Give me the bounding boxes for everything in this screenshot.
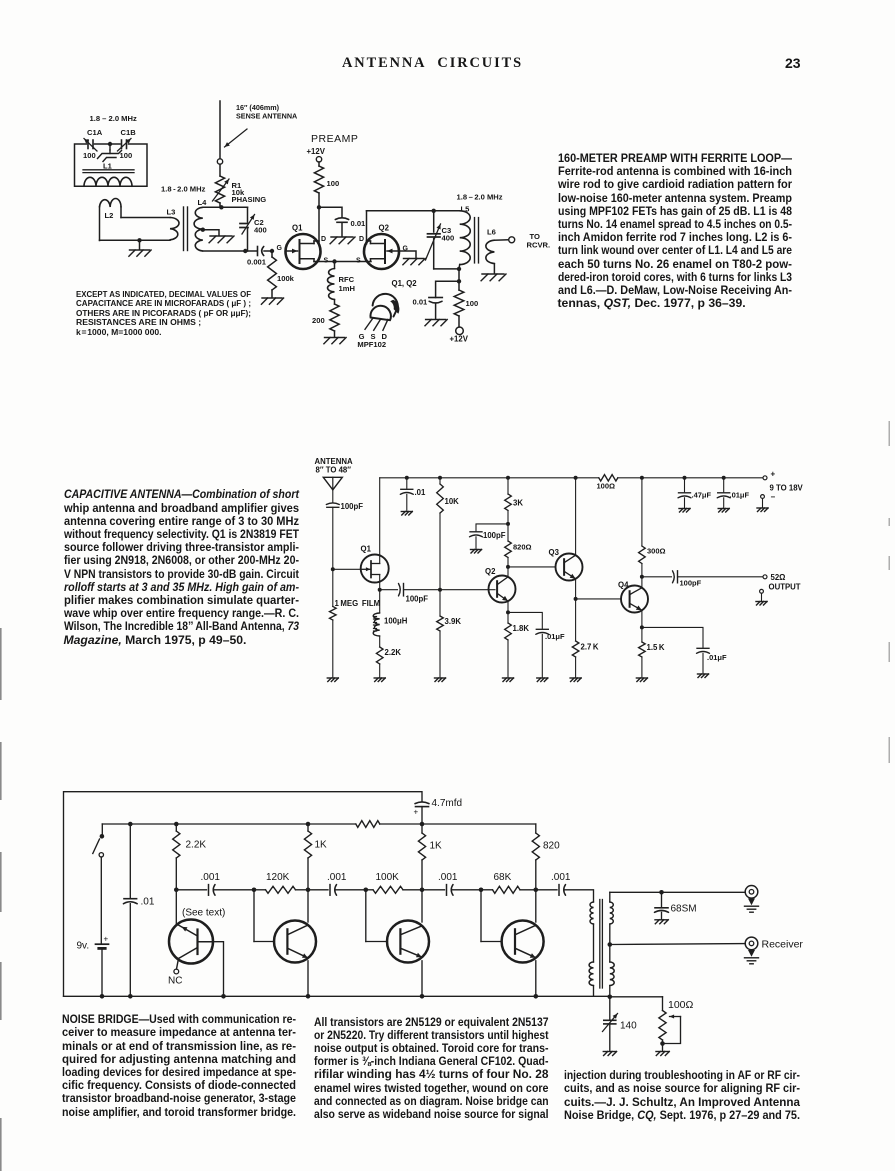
svg-text:+: + xyxy=(414,808,419,817)
terminal 52 ohm output xyxy=(763,575,767,579)
svg-text:400: 400 xyxy=(254,226,267,235)
ground .01 rail xyxy=(401,511,412,513)
svg-text:Q2: Q2 xyxy=(485,567,496,576)
transistor Q2 noise amp xyxy=(253,890,255,942)
svg-text:+: + xyxy=(771,470,776,479)
svg-text:L6: L6 xyxy=(487,228,496,237)
wire Q1 source down xyxy=(379,575,381,590)
arrow to sense antenna xyxy=(225,129,248,147)
capacitor .47uF xyxy=(684,478,686,492)
ground 200 xyxy=(325,337,345,339)
wire gate xyxy=(333,568,361,570)
svg-text:.01: .01 xyxy=(141,897,155,908)
svg-text:100: 100 xyxy=(327,179,340,188)
terminal + supply xyxy=(763,476,767,480)
svg-text:L4: L4 xyxy=(198,198,208,207)
svg-text:.47μF: .47μF xyxy=(692,491,712,500)
node Q4 base tap xyxy=(479,888,484,893)
node rail Q3 xyxy=(574,476,578,480)
svg-text:Q1: Q1 xyxy=(292,224,303,233)
node secondary bottom xyxy=(608,995,613,1000)
svg-text:68SM: 68SM xyxy=(671,904,697,915)
coax connector antenna xyxy=(745,886,758,899)
RFC 1mH choke xyxy=(334,262,336,269)
transformer core xyxy=(599,900,601,989)
resistor 120K xyxy=(254,889,266,891)
svg-text:0.01: 0.01 xyxy=(351,219,367,228)
battery 9v xyxy=(100,857,102,944)
wire Q2 drain to C3 xyxy=(366,211,368,241)
svg-text:L1: L1 xyxy=(103,162,113,171)
capacitor .01uF rail xyxy=(723,478,725,492)
svg-text:.001: .001 xyxy=(201,872,221,883)
ground 100 ohm xyxy=(656,1051,669,1053)
capacitor 0.01 source bypass xyxy=(436,281,459,297)
svg-text:100pF: 100pF xyxy=(406,595,429,604)
svg-text:0.01: 0.01 xyxy=(413,298,429,307)
capacitor .001 no4 xyxy=(536,889,557,891)
transistor Q4 noise amp xyxy=(480,890,482,942)
ground 1.8K xyxy=(503,677,514,679)
capacitor 100pF antenna xyxy=(326,503,339,505)
node Q2 emitter xyxy=(507,601,509,612)
node Q4 emitter bottom rail xyxy=(534,994,539,999)
ground 100k xyxy=(262,297,282,299)
node preamp +12V feed xyxy=(317,205,321,209)
second rail xyxy=(102,823,355,825)
svg-text:2.7 K: 2.7 K xyxy=(581,643,599,652)
ground 140 xyxy=(603,1051,616,1053)
capacitor .001 no1 xyxy=(208,885,210,896)
variable capacitor C2 xyxy=(240,223,248,225)
svg-text:.01: .01 xyxy=(415,488,427,497)
terminal sense antenna xyxy=(217,159,222,164)
wire Q2 gate to ground xyxy=(399,251,416,258)
svg-text:9v.: 9v. xyxy=(77,941,90,952)
ground .01uF Q4 xyxy=(698,673,709,675)
capacitor .01 rail bypass xyxy=(406,478,408,489)
svg-text:D: D xyxy=(359,236,364,243)
svg-text:100: 100 xyxy=(83,151,96,160)
ground Q2 gate xyxy=(404,258,424,260)
node gate xyxy=(331,567,335,571)
coax connector receiver xyxy=(745,937,758,950)
choke 100uH xyxy=(379,590,381,613)
terminal +12V source xyxy=(456,327,464,335)
node rail .47uF xyxy=(683,476,687,480)
svg-text:Q1, Q2: Q1, Q2 xyxy=(392,279,418,288)
svg-text:100Ω: 100Ω xyxy=(597,482,616,491)
svg-text:3.9K: 3.9K xyxy=(445,617,462,626)
resistor unlabeled rail xyxy=(356,821,380,828)
capacitor 0.01 drain bypass xyxy=(319,207,342,217)
sense antenna wire xyxy=(219,101,221,159)
svg-text:100μH: 100μH xyxy=(384,617,408,626)
capacitor .01 battery bypass xyxy=(129,824,131,898)
outer loop top wire xyxy=(64,792,423,997)
ground 3.9K xyxy=(435,677,446,679)
node 2.2K bottom xyxy=(174,888,179,893)
resistor 3.9K xyxy=(439,590,441,616)
trimmer under C1A-C1B tap xyxy=(109,144,111,150)
svg-text:3K: 3K xyxy=(513,499,523,508)
node 0.001 to Q1 gate xyxy=(270,249,274,253)
capacitor 4.7mfd xyxy=(415,802,429,804)
svg-text:−: − xyxy=(771,493,776,502)
svg-text:Q2: Q2 xyxy=(379,224,390,233)
node rail .01uF xyxy=(722,476,726,480)
resistor 2.2K xyxy=(174,822,179,827)
svg-text:Receiver: Receiver xyxy=(762,939,804,951)
resistor 100k xyxy=(271,251,273,257)
ground 2.7K xyxy=(570,677,581,679)
svg-text:1.8K: 1.8K xyxy=(513,624,530,633)
svg-text:SENSE ANTENNA: SENSE ANTENNA xyxy=(236,112,297,121)
capacitor .001 no3 xyxy=(422,889,445,891)
resistor 820 xyxy=(507,524,509,541)
node 1K no1 bottom xyxy=(306,888,311,893)
wire to .001 cap 1 xyxy=(176,889,206,891)
L4 center tap to ground xyxy=(201,228,205,232)
node rail 300 ohm xyxy=(640,476,644,480)
svg-text:200: 200 xyxy=(312,316,325,325)
node 820 bottom xyxy=(534,888,539,893)
tank box wires xyxy=(75,144,148,186)
svg-text:4.7mfd: 4.7mfd xyxy=(432,798,463,809)
node secondary center tap xyxy=(608,942,613,947)
ground Q1 branch xyxy=(374,677,385,679)
capacitor .01uF Q4 emitter xyxy=(642,627,703,647)
svg-text:1.8 - 2.0 MHz: 1.8 - 2.0 MHz xyxy=(161,185,206,194)
resistor 1K no1 xyxy=(306,822,311,827)
ground 100pF bypass xyxy=(471,549,482,551)
node rail 10K xyxy=(438,476,442,480)
terminal - supply xyxy=(761,495,765,499)
resistor 3K xyxy=(507,478,509,494)
node 100 ohm wiper xyxy=(660,1041,665,1046)
terminal TO RCVR xyxy=(509,237,515,243)
svg-text:2.2K: 2.2K xyxy=(186,840,207,851)
svg-text:NC: NC xyxy=(168,976,182,987)
svg-text:100K: 100K xyxy=(376,872,400,883)
ground - supply xyxy=(757,507,768,509)
svg-text:C1A: C1A xyxy=(87,128,103,137)
svg-text:0.001: 0.001 xyxy=(247,258,267,267)
resistor 100K xyxy=(366,889,373,891)
ground 0.01 source bypass xyxy=(426,319,446,321)
svg-text:100pF: 100pF xyxy=(483,531,506,540)
bottom rail xyxy=(64,995,611,997)
svg-text:+12V: +12V xyxy=(307,147,326,156)
svg-text:100pF: 100pF xyxy=(680,579,702,588)
node L5 lower junction xyxy=(458,269,460,281)
svg-text:RFC: RFC xyxy=(339,275,355,284)
node ground tap of L2-L3 loop xyxy=(137,238,141,242)
svg-text:100Ω: 100Ω xyxy=(668,999,694,1011)
node 1K no2 bottom xyxy=(420,888,425,893)
svg-text:120K: 120K xyxy=(266,872,290,883)
wire Q1 source to Q2 source xyxy=(314,261,371,263)
svg-text:52Ω: 52Ω xyxy=(771,573,786,582)
svg-text:PHASING: PHASING xyxy=(232,195,267,204)
node C2 bottom xyxy=(243,249,247,253)
node rail 3K xyxy=(506,476,510,480)
wire secondary top to connector xyxy=(610,891,745,893)
node 4.7mfd junction xyxy=(420,822,425,827)
svg-text:+12V: +12V xyxy=(450,334,469,343)
resistor 100 preamp drain xyxy=(318,162,320,166)
capacitor .001 no2 xyxy=(308,889,328,891)
capacitor 0.001 coupling xyxy=(257,247,259,256)
capacitor 68SM xyxy=(661,892,663,907)
svg-text:.001: .001 xyxy=(327,872,347,883)
node Q3 base tap xyxy=(364,888,369,893)
svg-text:L2: L2 xyxy=(105,211,114,220)
svg-text:L3: L3 xyxy=(167,208,176,217)
transformer primary winding xyxy=(590,902,593,924)
variable capacitor 140 xyxy=(609,997,611,1019)
wire bottom of loop xyxy=(100,239,171,241)
transformer core L3-L4 xyxy=(183,207,185,251)
wire Q1 drain to rail xyxy=(379,478,381,564)
ground 68SM xyxy=(655,919,668,921)
capacitor .01uF Q2 emitter xyxy=(508,612,542,628)
svg-text:100k: 100k xyxy=(277,274,295,283)
svg-text:400: 400 xyxy=(442,234,455,243)
svg-text:.01μF: .01μF xyxy=(545,632,565,641)
svg-text:.01μF: .01μF xyxy=(730,491,750,500)
svg-text:8″ TO 48″: 8″ TO 48″ xyxy=(316,466,352,475)
transistor Q3 noise amp xyxy=(365,890,367,942)
svg-text:G: G xyxy=(277,245,283,252)
svg-text:100: 100 xyxy=(120,151,133,160)
svg-text:OUTPUT: OUTPUT xyxy=(769,583,801,592)
node 3K-820 junction xyxy=(506,522,510,526)
node 10K-3.9K junction xyxy=(438,588,442,592)
L4 box wires xyxy=(203,206,248,208)
svg-text:1 MEG FILM: 1 MEG FILM xyxy=(335,599,381,608)
ground .01uF rail xyxy=(718,508,729,510)
svg-text:.001: .001 xyxy=(438,872,458,883)
capacitor 100pF coupling Q1-Q2 xyxy=(380,589,398,591)
svg-text:1.8 – 2.0 MHz: 1.8 – 2.0 MHz xyxy=(457,193,503,202)
potentiometer R1 phasing xyxy=(219,164,221,176)
node battery bottom xyxy=(100,994,105,999)
svg-text:2.2K: 2.2K xyxy=(385,648,402,657)
node .01 bottom xyxy=(128,994,133,999)
ground output xyxy=(756,601,767,603)
node Q4 emitter xyxy=(641,610,643,627)
wire C3 bottom to L5 bottom xyxy=(434,268,459,270)
svg-text:100: 100 xyxy=(466,299,479,308)
wire antenna cap to gate node xyxy=(332,507,334,569)
wire secondary bottom to 100 ohm xyxy=(610,996,663,998)
svg-text:RCVR.: RCVR. xyxy=(527,241,551,250)
node top of L1 tank xyxy=(108,142,112,146)
svg-text:+: + xyxy=(104,935,109,944)
svg-text:S: S xyxy=(356,258,361,265)
ground connector receiver xyxy=(745,957,759,959)
transformer secondary winding xyxy=(609,892,611,902)
ground antenna branch xyxy=(327,677,338,679)
ground .01uF Q2 xyxy=(537,677,548,679)
svg-text:D: D xyxy=(321,236,326,243)
node Q1 base bottom rail xyxy=(221,994,226,999)
node Q2 base tap xyxy=(252,888,257,893)
svg-text:Q1: Q1 xyxy=(361,545,372,554)
svg-text:1K: 1K xyxy=(430,841,443,852)
svg-text:.001: .001 xyxy=(551,872,571,883)
node Q4 collector output tap xyxy=(640,575,644,579)
node .01 top xyxy=(128,822,133,827)
resistor 100 source xyxy=(458,281,460,290)
svg-text:.01μF: .01μF xyxy=(707,653,727,662)
node Q3 emitter bottom rail xyxy=(420,994,425,999)
node Q2 collector - Q3 base xyxy=(506,565,510,569)
capacitor 100pF output xyxy=(642,576,672,578)
resistor 300 ohm xyxy=(641,478,643,546)
capacitor C1B xyxy=(121,140,123,149)
switch xyxy=(101,824,103,835)
svg-text:1K: 1K xyxy=(315,840,328,851)
capacitor C1A xyxy=(87,140,89,149)
svg-text:820: 820 xyxy=(543,841,560,852)
transformer core L5-L6 xyxy=(474,218,476,263)
capacitor 100pF Q3 base bypass xyxy=(476,524,508,531)
resistor 820 xyxy=(535,824,537,833)
transistor Q1 noise generator diode-connected xyxy=(169,920,213,964)
svg-text:10K: 10K xyxy=(445,497,460,506)
svg-text:(See text): (See text) xyxy=(182,908,225,919)
variable capacitor C3 400 xyxy=(433,211,435,232)
node Q1 source xyxy=(378,588,382,592)
resistor 10K xyxy=(439,478,441,484)
page edge artifacts xyxy=(0,628,2,700)
node Q3 emitter - Q4 base xyxy=(575,579,577,599)
resistor 200 xyxy=(334,300,336,305)
svg-text:9 TO 18V: 9 TO 18V xyxy=(770,484,804,493)
node 68SM tap xyxy=(659,890,664,895)
terminal output ground xyxy=(760,589,764,593)
svg-text:Q3: Q3 xyxy=(549,548,560,557)
ground .47uF xyxy=(679,508,690,510)
ground 0.01 drain bypass xyxy=(331,236,353,238)
svg-text:MPF102: MPF102 xyxy=(357,340,386,349)
svg-text:140: 140 xyxy=(620,1021,637,1032)
node rail .01 xyxy=(405,476,409,480)
node Q2 emitter bottom rail xyxy=(306,994,311,999)
wire antenna down xyxy=(332,490,334,502)
resistor 1.5K xyxy=(641,627,643,642)
svg-text:1.8 – 2.0 MHz: 1.8 – 2.0 MHz xyxy=(90,114,137,123)
node L4 top to R1 xyxy=(219,205,223,209)
svg-text:100pF: 100pF xyxy=(341,502,364,511)
MPF102 package drawing xyxy=(370,306,390,320)
svg-text:1mH: 1mH xyxy=(339,284,355,293)
resistor 1MEG FILM xyxy=(332,569,334,606)
ground L6 xyxy=(482,273,504,275)
node source junction xyxy=(332,259,336,263)
resistor 68K xyxy=(481,889,493,891)
resistor 100 ohm rail xyxy=(599,475,618,481)
resistor 1K no2 xyxy=(421,824,423,833)
svg-text:PREAMP: PREAMP xyxy=(311,133,358,145)
ground 1.5K xyxy=(636,677,647,679)
resistor 2.7K xyxy=(575,599,577,641)
wire center tap to receiver connector xyxy=(610,943,745,946)
terminal NC xyxy=(174,969,179,974)
svg-text:68K: 68K xyxy=(494,872,512,883)
node L5 bottom xyxy=(457,267,461,271)
svg-text:C1B: C1B xyxy=(121,128,137,137)
ground L2 loop xyxy=(130,249,150,251)
resistor 2.2K Q1 source xyxy=(379,636,381,647)
top supply rail xyxy=(380,477,599,479)
svg-text:1.5 K: 1.5 K xyxy=(647,643,665,652)
resistor 1.8K xyxy=(507,612,509,623)
node C3 top xyxy=(432,209,436,213)
svg-text:820Ω: 820Ω xyxy=(513,543,532,552)
svg-text:300Ω: 300Ω xyxy=(647,547,666,556)
ground connector antenna xyxy=(745,905,759,907)
